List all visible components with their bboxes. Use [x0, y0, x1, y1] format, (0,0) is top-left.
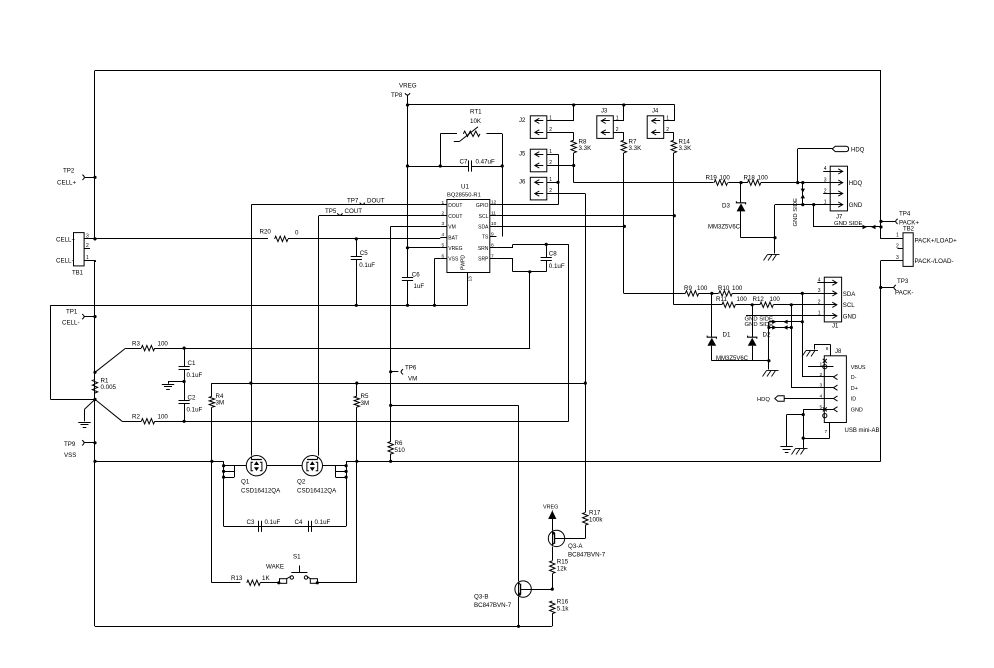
- wire J5.2 to HDQ pullup: [547, 165, 574, 167]
- resistor R18: [744, 175, 769, 186]
- svg-text:R20: R20: [260, 229, 272, 236]
- wire SDA to D-: [802, 293, 804, 377]
- wire Q1 to Q2: [267, 465, 302, 467]
- svg-text:3.3K: 3.3K: [579, 145, 593, 152]
- svg-text:0.1uF: 0.1uF: [549, 263, 565, 270]
- svg-text:100: 100: [737, 296, 748, 303]
- wire SCL to R11 row: [674, 304, 722, 306]
- node VREG rail left: [406, 103, 409, 106]
- wire C8 bottom lead: [546, 260, 548, 271]
- svg-text:10K: 10K: [470, 118, 482, 125]
- node TP1 junction: [93, 315, 96, 318]
- svg-text:8: 8: [491, 243, 494, 249]
- connector J8 USB mini-AB: [820, 349, 880, 435]
- wire to ground: [168, 381, 184, 383]
- svg-text:R19: R19: [706, 175, 718, 182]
- node S1 left pad: [277, 581, 280, 584]
- svg-text:HDQ: HDQ: [757, 397, 770, 403]
- wire Q1 source stubs: [222, 464, 246, 479]
- node TP3 junction: [879, 286, 882, 289]
- svg-text:COUT: COUT: [345, 208, 363, 215]
- svg-text:TP9: TP9: [64, 441, 76, 448]
- svg-text:6: 6: [826, 346, 829, 352]
- zener diode D1: [707, 332, 731, 346]
- capacitor C2: [179, 395, 203, 414]
- svg-text:100: 100: [770, 296, 781, 303]
- test point TP9: [64, 440, 84, 459]
- wire tie left vertical: [768, 328, 770, 361]
- wire HDQ to J7.3: [761, 182, 830, 184]
- wire PACK- rail: [346, 461, 881, 463]
- wire VM branch to Q3-B: [391, 405, 519, 581]
- wire HDQ mid: [728, 182, 748, 184]
- svg-text:VSS: VSS: [448, 257, 459, 263]
- wire zener gnd stem: [768, 361, 770, 370]
- node R6 rail: [389, 460, 392, 463]
- header J5: [519, 149, 555, 172]
- wire J7.1 GND line: [775, 204, 830, 206]
- test point TP4: [896, 210, 920, 226]
- wire D3 cathode lead: [740, 183, 742, 203]
- node J3.1 rail: [622, 103, 625, 106]
- wire D1 cathode lead: [711, 293, 713, 337]
- capacitor C1: [179, 360, 203, 379]
- header J3: [597, 109, 622, 139]
- wire R4 top lead: [211, 383, 213, 396]
- wire R8 bottom: [573, 153, 575, 183]
- test point TP2: [57, 168, 84, 187]
- svg-text:VREG: VREG: [399, 83, 417, 90]
- svg-text:3: 3: [824, 177, 827, 183]
- svg-text:GPIO: GPIO: [476, 203, 489, 209]
- svg-text:1: 1: [549, 177, 552, 183]
- resistor R5: [354, 393, 369, 407]
- wire TP4: [881, 221, 895, 223]
- header J2: [519, 115, 555, 138]
- wire SDA to J1.3: [732, 293, 824, 295]
- wire Q3-B emitter: [518, 597, 520, 627]
- wire J8 pin6: [814, 344, 831, 356]
- wire J2.1 to VREG rail: [547, 105, 574, 121]
- svg-text:U1: U1: [461, 184, 469, 191]
- wire TP6 lead: [391, 371, 399, 373]
- svg-text:R6: R6: [395, 440, 403, 447]
- svg-text:Q3-B: Q3-B: [474, 594, 488, 601]
- wire SDA to R9 row: [624, 293, 686, 295]
- svg-text:VSS: VSS: [64, 452, 76, 459]
- resistor R1: [92, 378, 116, 393]
- svg-text:TP6: TP6: [405, 364, 417, 371]
- wire gnd stem: [774, 238, 776, 254]
- test point TP8: [391, 83, 417, 100]
- wire J8 gnd left branch: [787, 415, 804, 447]
- ground at C1 C2: [162, 385, 174, 390]
- svg-text:PACK-/LOAD-: PACK-/LOAD-: [915, 258, 954, 265]
- resistor R11: [716, 296, 747, 307]
- node SDA R7 tie: [623, 225, 626, 228]
- svg-text:SCL: SCL: [843, 302, 855, 309]
- wire VM vertical: [390, 226, 392, 442]
- svg-text:TB1: TB1: [72, 271, 84, 277]
- svg-text:CELL-: CELL-: [56, 258, 74, 265]
- wire R2 left lead: [122, 421, 141, 423]
- svg-text:BC847BVN-7: BC847BVN-7: [474, 602, 512, 609]
- node D1 top: [710, 292, 713, 295]
- svg-text:MM3Z5V6C: MM3Z5V6C: [708, 225, 741, 231]
- svg-text:C4: C4: [295, 519, 303, 526]
- wire SRN jog: [496, 244, 568, 247]
- node SDA D- tap: [801, 292, 804, 295]
- svg-text:R12: R12: [753, 296, 765, 303]
- svg-text:100: 100: [697, 285, 708, 292]
- wire VBUS stub: [808, 366, 824, 368]
- power flag VREG: [543, 505, 558, 520]
- resistor R16: [550, 599, 570, 614]
- svg-text:0.47uF: 0.47uF: [476, 159, 495, 166]
- svg-text:D2: D2: [763, 332, 771, 339]
- svg-text:9: 9: [491, 231, 494, 237]
- node C7 TS: [501, 164, 504, 167]
- wire DOUT cross line: [212, 383, 585, 385]
- wire TP1 to CELL- line: [85, 316, 96, 318]
- svg-text:Q2: Q2: [297, 479, 306, 486]
- wire ground stem: [168, 382, 170, 384]
- resistor R17: [583, 510, 604, 526]
- node D2 top: [751, 303, 754, 306]
- capacitor C3: [247, 519, 281, 532]
- wire TP9 to VSS: [85, 442, 96, 444]
- header J6: [519, 177, 555, 200]
- svg-text:5.1k: 5.1k: [557, 606, 570, 613]
- wire R14 SCL vertical: [673, 153, 675, 305]
- wire PACK- right vertical: [880, 261, 882, 462]
- wire R6 bottom lead: [390, 454, 392, 462]
- svg-text:J5: J5: [519, 151, 526, 157]
- svg-text:SRP: SRP: [478, 257, 489, 263]
- wire VSS detour bottom: [51, 399, 96, 401]
- wire VREG rail: [408, 104, 675, 106]
- svg-text:0.1uF: 0.1uF: [265, 519, 281, 526]
- svg-text:3.3K: 3.3K: [679, 145, 693, 152]
- terminal block TB2: [881, 226, 957, 266]
- svg-text:ID: ID: [851, 397, 856, 403]
- node tie PACK+: [879, 225, 882, 228]
- svg-text:USB mini-AB: USB mini-AB: [845, 428, 880, 434]
- node C6 bottom VSS: [406, 304, 409, 307]
- wire C7 right lead: [472, 166, 503, 168]
- wire C7 left lead: [408, 166, 469, 168]
- wire SCL to D+: [791, 305, 793, 388]
- wire C2 bottom lead: [184, 404, 186, 421]
- svg-text:1: 1: [549, 149, 552, 155]
- net flag HDQ top: [832, 146, 864, 153]
- net flag HDQ at ID: [757, 396, 784, 403]
- wire VREG to Q3-A emitter: [552, 519, 554, 531]
- capacitor C7: [460, 159, 495, 172]
- svg-text:GND SIDE: GND SIDE: [834, 221, 863, 227]
- wire R5 top lead: [356, 383, 358, 396]
- test point TP3: [894, 278, 914, 297]
- wire SRN vertical: [568, 244, 570, 421]
- node J6.1 tap: [556, 181, 559, 184]
- capacitor C5: [351, 250, 376, 269]
- chassis ground below D1 D2: [763, 371, 779, 377]
- wire VSS detour top: [51, 305, 96, 307]
- resistor R9: [684, 285, 708, 296]
- label MM3Z5V6C D3: [708, 225, 741, 231]
- chassis ground J8 bottom: [792, 449, 808, 455]
- svg-text:R17: R17: [589, 510, 601, 517]
- wire SRN sense line: [155, 421, 569, 423]
- wire SCL mid: [735, 304, 760, 306]
- node C2 bottom: [183, 420, 186, 423]
- svg-text:BQ28550-R1: BQ28550-R1: [447, 193, 481, 199]
- svg-text:2: 2: [896, 244, 899, 250]
- wire C8 top lead: [546, 244, 548, 257]
- svg-text:7: 7: [491, 253, 494, 259]
- IC U1 BQ28550-R1: [440, 184, 496, 305]
- node TP4 junction: [879, 220, 882, 223]
- wire C1 top lead: [184, 348, 186, 366]
- header J1: [817, 277, 857, 329]
- wire R13 to S1: [260, 582, 279, 584]
- svg-text:R2: R2: [132, 414, 140, 421]
- svg-text:2: 2: [818, 300, 821, 306]
- wire R15 to base node: [552, 574, 554, 589]
- svg-text:PACK+: PACK+: [899, 219, 919, 226]
- resistor R7: [621, 139, 642, 153]
- test point TP5: [325, 208, 362, 215]
- svg-text:3: 3: [896, 255, 899, 261]
- svg-text:TP7: TP7: [347, 198, 359, 205]
- svg-text:R10: R10: [718, 285, 730, 292]
- svg-text:100: 100: [720, 175, 731, 182]
- node VSS pin: [433, 304, 436, 307]
- node J7 gnd b: [801, 203, 804, 206]
- wire VSS rail left: [95, 461, 224, 463]
- resistor R10: [718, 285, 743, 296]
- svg-text:CELL+: CELL+: [56, 236, 75, 243]
- wire Q3-A base to R17: [565, 525, 586, 538]
- wire Q2 source stubs: [323, 464, 348, 479]
- svg-text:J7: J7: [836, 214, 843, 220]
- wire GPIO vertical to J5.1: [558, 154, 560, 204]
- wire RT1 right leg / TS: [502, 134, 504, 237]
- svg-text:R15: R15: [557, 559, 569, 566]
- net tie GND SIDE to PACK+: [814, 205, 882, 230]
- node C5 top: [355, 237, 358, 240]
- wire R5 bottom lead: [356, 407, 358, 461]
- node tie row2 right: [790, 326, 793, 329]
- wire TB1.1 down: [95, 260, 97, 262]
- svg-text:3.3K: 3.3K: [629, 145, 643, 152]
- wire R1 bottom to ground: [85, 399, 96, 421]
- wire J3.2 to R7: [613, 132, 624, 140]
- wire R20 to BAT pin: [288, 238, 440, 240]
- node TP6 junction: [389, 370, 392, 373]
- svg-text:CSD16412QA: CSD16412QA: [241, 488, 281, 495]
- wire DOUT vertical to Q1 gate: [251, 205, 253, 456]
- resistor R6: [388, 440, 405, 454]
- wire R7 SDA vertical: [623, 153, 625, 294]
- svg-text:1: 1: [896, 233, 899, 239]
- svg-text:3: 3: [86, 234, 89, 240]
- wire GPIO: [496, 204, 558, 206]
- svg-text:D-: D-: [851, 375, 857, 381]
- wire C1-C2 link: [184, 369, 186, 400]
- resistor R12: [753, 296, 781, 307]
- ground below R1: [78, 423, 90, 428]
- svg-text:3: 3: [818, 288, 821, 294]
- svg-text:D+: D+: [851, 386, 858, 392]
- svg-text:VREG: VREG: [543, 505, 558, 511]
- wire TP8 stem: [407, 96, 409, 106]
- svg-text:Q3-A: Q3-A: [568, 543, 583, 550]
- svg-text:100k: 100k: [589, 517, 603, 524]
- svg-text:GND: GND: [851, 408, 863, 414]
- svg-text:R3: R3: [132, 341, 140, 348]
- wire R3 left lead: [126, 348, 142, 350]
- wire S1 right pad: [317, 582, 319, 584]
- resistor R2: [132, 414, 168, 424]
- node SCL R14 tie: [673, 214, 676, 217]
- node SRP branch: [528, 270, 531, 273]
- svg-text:13: 13: [468, 276, 474, 282]
- wire C5 top lead: [356, 239, 358, 257]
- svg-text:100: 100: [732, 285, 743, 292]
- svg-text:PWPD: PWPD: [461, 255, 467, 270]
- svg-text:J4: J4: [652, 109, 659, 115]
- transistor Q2 CSD16412QA: [297, 456, 337, 495]
- svg-text:J3: J3: [601, 109, 608, 115]
- svg-text:R9: R9: [684, 285, 692, 292]
- wire J6.2 down: [547, 194, 586, 513]
- zener diode D2: [748, 332, 771, 346]
- wire S1 right: [318, 582, 357, 584]
- wire D3 anode lead: [740, 211, 742, 237]
- wire R1 bottom diagonal to R2: [95, 399, 122, 421]
- wire CELL+ to R20: [95, 238, 268, 240]
- svg-text:6: 6: [442, 253, 445, 259]
- net tie GND SIDE vertical: [793, 183, 805, 227]
- node DOUT 383 line: [249, 382, 252, 385]
- wire bottom VSS rail: [95, 626, 552, 628]
- svg-text:SCL: SCL: [479, 214, 489, 220]
- wire J1 GND line: [746, 315, 824, 317]
- svg-text:GND: GND: [849, 202, 863, 209]
- svg-text:MM3Z5V6C: MM3Z5V6C: [716, 356, 749, 362]
- wire SRP jog: [496, 259, 546, 272]
- wire rail to S1: [356, 461, 358, 583]
- wire VSS detour left: [50, 305, 52, 399]
- wire R16 bottom: [552, 613, 554, 626]
- svg-text:VREG: VREG: [448, 246, 462, 252]
- node rail S1: [355, 460, 358, 463]
- svg-text:12k: 12k: [557, 566, 568, 573]
- svg-text:100: 100: [158, 341, 169, 348]
- svg-text:0.005: 0.005: [101, 384, 117, 391]
- wire SDA mid: [699, 293, 719, 295]
- resistor R15: [550, 559, 569, 574]
- wire D3 to gnd branch: [741, 237, 775, 239]
- svg-text:J6: J6: [519, 179, 526, 185]
- header J7: [823, 166, 863, 220]
- wire C5 bottom lead: [356, 260, 358, 306]
- svg-text:0.1uF: 0.1uF: [187, 372, 203, 379]
- wire C6 bottom lead: [407, 281, 409, 306]
- wire TP2 to border: [85, 177, 95, 179]
- svg-text:R11: R11: [716, 296, 727, 303]
- node HDQ flag tap: [796, 181, 799, 184]
- svg-text:TS: TS: [482, 235, 489, 241]
- wire HDQ line left: [574, 182, 714, 184]
- wire CELL+ left border: [94, 71, 96, 239]
- svg-text:R16: R16: [557, 599, 569, 606]
- svg-text:510: 510: [395, 447, 406, 454]
- svg-text:RT1: RT1: [470, 109, 482, 116]
- svg-text:COUT: COUT: [448, 214, 462, 220]
- test point TP1: [62, 309, 84, 327]
- svg-text:BAT: BAT: [448, 235, 457, 241]
- svg-text:4: 4: [818, 278, 821, 284]
- node C8 top: [545, 243, 548, 246]
- node R17 tie: [584, 382, 587, 385]
- svg-text:2: 2: [820, 372, 823, 378]
- wire SCL to J1.2: [773, 304, 824, 306]
- node J5.2 tie: [572, 164, 575, 167]
- svg-text:10: 10: [491, 221, 497, 227]
- svg-text:C2: C2: [188, 395, 196, 402]
- wire J8 GND: [803, 409, 824, 448]
- svg-text:1uF: 1uF: [414, 283, 425, 290]
- wire VREG vertical: [407, 105, 409, 278]
- node J7 gnd a: [812, 203, 815, 206]
- svg-text:J8: J8: [835, 349, 842, 355]
- svg-text:2: 2: [824, 188, 827, 194]
- svg-text:VBUS: VBUS: [851, 365, 866, 371]
- svg-text:1: 1: [442, 200, 445, 206]
- svg-text:100: 100: [758, 175, 769, 182]
- node RT1 left C7: [439, 164, 442, 167]
- wire SDA from U1: [496, 226, 624, 228]
- svg-text:BC847BVN-7: BC847BVN-7: [568, 552, 606, 559]
- svg-text:D1: D1: [723, 332, 731, 339]
- capacitor C4: [295, 519, 331, 532]
- node tie row1 right: [801, 320, 804, 323]
- svg-text:GND SIDE: GND SIDE: [745, 322, 774, 328]
- node D3 top: [739, 181, 742, 184]
- svg-text:GND SIDE: GND SIDE: [793, 198, 799, 227]
- node TB1.3 CELL+: [93, 237, 96, 240]
- svg-text:Q1: Q1: [241, 479, 250, 486]
- ground J8: [780, 447, 792, 453]
- svg-text:11: 11: [491, 211, 496, 217]
- node VREG C7 tap: [406, 164, 409, 167]
- svg-text:0.1uF: 0.1uF: [187, 406, 203, 413]
- svg-text:TP8: TP8: [391, 92, 403, 99]
- header J4: [647, 109, 672, 139]
- wire J3.1 to rail: [613, 105, 624, 121]
- svg-text:4: 4: [442, 232, 445, 238]
- svg-text:3: 3: [442, 221, 445, 227]
- wire VSS pin lead: [435, 259, 441, 306]
- capacitor C8: [541, 250, 565, 270]
- chassis ground near D3: [764, 255, 780, 261]
- wire R4 bottom lead: [211, 407, 213, 461]
- svg-text:1: 1: [86, 255, 89, 261]
- wire SRP to sense line: [529, 348, 531, 350]
- wire VM horizontal: [391, 226, 441, 228]
